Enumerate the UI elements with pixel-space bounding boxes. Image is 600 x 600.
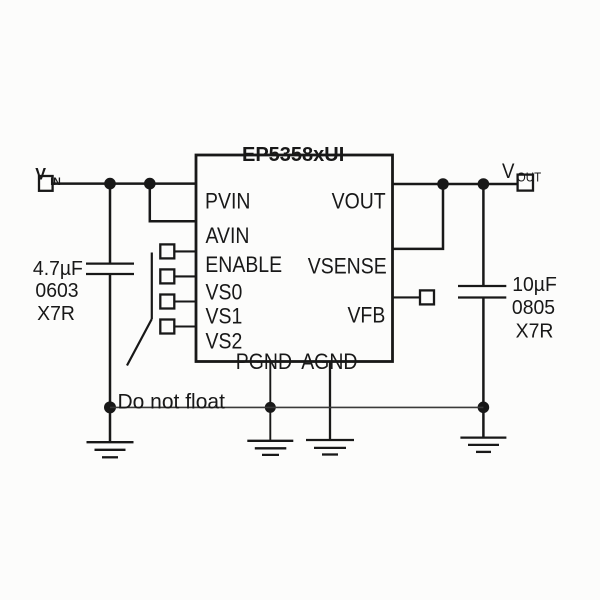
wire VFB stub xyxy=(393,296,421,298)
wire VIN to PVIN xyxy=(53,182,196,185)
ground right xyxy=(460,438,506,452)
svg-text:AVIN: AVIN xyxy=(206,224,250,248)
wire VS2 stub xyxy=(174,325,196,327)
terminal square ENABLE xyxy=(160,244,174,258)
ground AGND xyxy=(306,440,354,455)
terminal square VS2 xyxy=(160,320,174,334)
ground left xyxy=(87,442,134,457)
svg-text:AGND: AGND xyxy=(301,350,357,374)
wire VS0 stub xyxy=(174,275,196,277)
wire VOUT xyxy=(393,183,518,186)
svg-text:PVIN: PVIN xyxy=(205,189,250,213)
op-amp U1 EP5358xUI body xyxy=(196,155,393,362)
wire to left ground xyxy=(109,407,112,442)
switch SW1 arm xyxy=(127,319,152,366)
ground PGND xyxy=(247,441,293,455)
svg-text:VOUT: VOUT xyxy=(332,189,386,213)
wire input cap bottom xyxy=(109,274,112,407)
wire input cap top xyxy=(109,184,112,264)
wire output cap bottom xyxy=(482,298,485,408)
junction PGND ground node xyxy=(265,402,276,413)
switch SW1 selector bus xyxy=(151,253,153,320)
junction VSENSE tap xyxy=(437,178,449,190)
svg-text:OUT: OUT xyxy=(517,170,542,185)
junction input cap node xyxy=(104,178,116,190)
wire to right ground xyxy=(482,407,485,437)
terminal square VS0 xyxy=(160,269,174,283)
svg-text:IN: IN xyxy=(50,176,61,188)
capacitor C2 10uF plates xyxy=(458,285,506,287)
svg-text:EP5358xUI: EP5358xUI xyxy=(242,144,344,166)
wire AVIN vertical drop xyxy=(150,184,196,222)
wire do-not-float net xyxy=(110,406,483,408)
wire ENABLE stub xyxy=(174,250,196,252)
wire PGND stub xyxy=(269,362,271,441)
svg-text:VS1: VS1 xyxy=(206,304,243,328)
terminal square VFB xyxy=(420,290,434,304)
svg-text:VFB: VFB xyxy=(347,303,385,327)
svg-text:V: V xyxy=(35,164,46,183)
terminal square VS1 xyxy=(160,295,174,309)
junction AVIN tap xyxy=(144,178,156,190)
svg-text:PGND: PGND xyxy=(236,350,292,374)
svg-text:V: V xyxy=(502,160,515,183)
svg-text:VS0: VS0 xyxy=(206,280,243,304)
wire VSENSE feedback xyxy=(393,184,444,249)
junction left ground node xyxy=(104,401,116,413)
svg-text:0603: 0603 xyxy=(35,280,78,302)
svg-text:ENABLE: ENABLE xyxy=(205,253,282,277)
capacitor C1 4.7uF plates xyxy=(86,263,134,265)
node VIN terminal square xyxy=(39,176,53,191)
wire AGND stub xyxy=(329,362,331,441)
junction output cap node xyxy=(478,178,490,190)
svg-text:0805: 0805 xyxy=(512,297,555,319)
junction right ground node xyxy=(478,402,490,414)
svg-text:X7R: X7R xyxy=(516,320,554,342)
svg-text:VSENSE: VSENSE xyxy=(308,254,387,278)
node VOUT terminal square xyxy=(518,175,533,191)
wire VS1 stub xyxy=(174,300,196,302)
svg-text:4.7µF: 4.7µF xyxy=(33,258,83,280)
wire output cap top xyxy=(482,184,485,286)
svg-text:10µF: 10µF xyxy=(512,274,557,296)
svg-text:Do not float: Do not float xyxy=(118,390,226,413)
svg-text:X7R: X7R xyxy=(37,303,75,325)
